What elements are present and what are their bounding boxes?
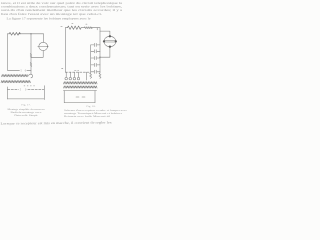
box B right <box>43 86 45 100</box>
ladder left rail <box>90 45 92 73</box>
resistor R1 <box>9 32 20 35</box>
box C top <box>63 90 96 92</box>
box B bottom <box>8 98 45 100</box>
wire left rail A <box>7 34 9 71</box>
wire top right C <box>91 27 100 29</box>
coil L1 end hook <box>29 74 33 78</box>
wire mid top C <box>81 27 84 29</box>
svg-text:Reinartz avec bulle Marconi-fi: Reinartz avec bulle Marconi-fil <box>64 115 110 118</box>
bridge ring M1 <box>104 36 116 46</box>
ring chords <box>104 41 115 43</box>
lamp E1 <box>65 72 67 77</box>
box C bottom <box>64 102 95 104</box>
resistor R2 vertical <box>30 54 32 67</box>
wire mid rail <box>30 34 32 54</box>
wire drop <box>86 72 88 80</box>
label speck <box>62 67 63 69</box>
svg-text:La figure 17 represente les bo: La figure 17 represente les bobines empl… <box>7 17 92 21</box>
coil L4 <box>64 86 98 88</box>
source G1 <box>39 42 48 50</box>
wire top A <box>8 33 10 35</box>
circuit C <box>65 26 117 73</box>
svg-text:l'Intervalle Simple: l'Intervalle Simple <box>14 114 39 117</box>
box B ticks <box>24 85 35 87</box>
ring node N <box>109 35 111 37</box>
svg-text:Fig. 18.: Fig. 18. <box>87 105 96 108</box>
wire bottom A <box>8 69 32 71</box>
box C left <box>63 91 65 103</box>
coil L2 <box>1 80 30 82</box>
wire top C <box>65 27 67 29</box>
ladder rungs: capacitors <box>65 43 101 80</box>
junction tick <box>96 28 98 30</box>
lamp E2 <box>69 72 71 77</box>
node on G1 <box>47 46 49 48</box>
lamp E3 <box>73 72 75 77</box>
ring node W <box>103 40 105 42</box>
wire to source <box>42 34 44 43</box>
svg-text:lieu d'en faire l'essai avec u: lieu d'en faire l'essai avec un montage … <box>1 12 102 16</box>
capacitor C3 <box>91 56 100 59</box>
capacitor C4 <box>91 63 100 66</box>
resistor R3 <box>68 26 82 29</box>
wire mid rail lower <box>30 57 32 75</box>
ring node E <box>115 40 117 42</box>
resistor R5 vertical <box>90 73 92 78</box>
box C right <box>94 91 96 103</box>
node J2 <box>99 57 100 58</box>
tick label D <box>75 69 79 71</box>
wire top A right <box>18 33 43 35</box>
wire bridge feed <box>100 31 110 36</box>
wire bridge out <box>100 48 110 57</box>
svg-text:Fig. 17.: Fig. 17. <box>22 103 31 106</box>
wire below G1 <box>31 51 43 58</box>
label tick near C corner <box>61 24 87 27</box>
box C dashes <box>76 96 85 98</box>
coil L3 <box>64 82 98 84</box>
capacitor C5 <box>91 70 100 73</box>
capacitor C2 <box>91 50 100 53</box>
lamp E4 <box>78 72 80 77</box>
circuit A: left loop <box>8 32 49 74</box>
wire left rail C <box>64 28 66 72</box>
resistor R6 vertical <box>99 73 101 78</box>
source G1 bar <box>38 45 48 47</box>
wire right rail C <box>99 28 101 73</box>
resistor R4 <box>84 27 92 29</box>
coil L1 <box>2 74 28 76</box>
ring node S <box>109 46 111 48</box>
capacitor C1 <box>91 43 100 46</box>
box B top <box>8 88 45 90</box>
box B left <box>7 87 9 99</box>
node J1 <box>30 33 31 34</box>
dashed link D <box>65 71 90 73</box>
